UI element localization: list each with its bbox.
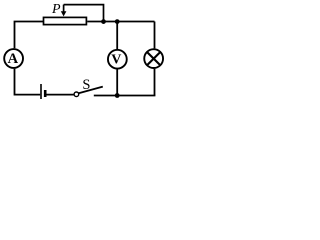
wire right rail bottom — [154, 69, 156, 96]
voltmeter V1 — [108, 50, 127, 69]
lamp L1 — [144, 49, 163, 68]
battery B1 long plate — [40, 84, 42, 99]
svg-text:V: V — [111, 53, 121, 68]
node junction dot 2 — [115, 19, 120, 24]
wire left rail bottom segment — [15, 69, 41, 95]
wire voltmeter top lead — [116, 22, 118, 49]
wire battery to switch — [47, 94, 75, 96]
wire right rail top — [154, 22, 156, 49]
node junction dot 1 — [101, 19, 106, 24]
battery B1 short plate — [44, 90, 47, 97]
switch S lever — [79, 87, 103, 94]
svg-text:S: S — [82, 77, 90, 93]
wire slider loop — [64, 5, 104, 22]
wire voltmeter bottom lead — [116, 69, 118, 95]
wire bottom rail right — [94, 95, 156, 97]
rheostat slider arrow — [63, 5, 65, 13]
node junction dot 3 — [115, 93, 120, 98]
svg-text:A: A — [8, 51, 19, 67]
svg-text:P: P — [51, 2, 61, 17]
ammeter A1 — [4, 49, 23, 68]
rheostat P — [44, 17, 87, 24]
wire top rail — [87, 21, 154, 23]
switch S pivot — [74, 92, 79, 97]
wire left rail top segment and top-left horizontal — [15, 22, 44, 49]
